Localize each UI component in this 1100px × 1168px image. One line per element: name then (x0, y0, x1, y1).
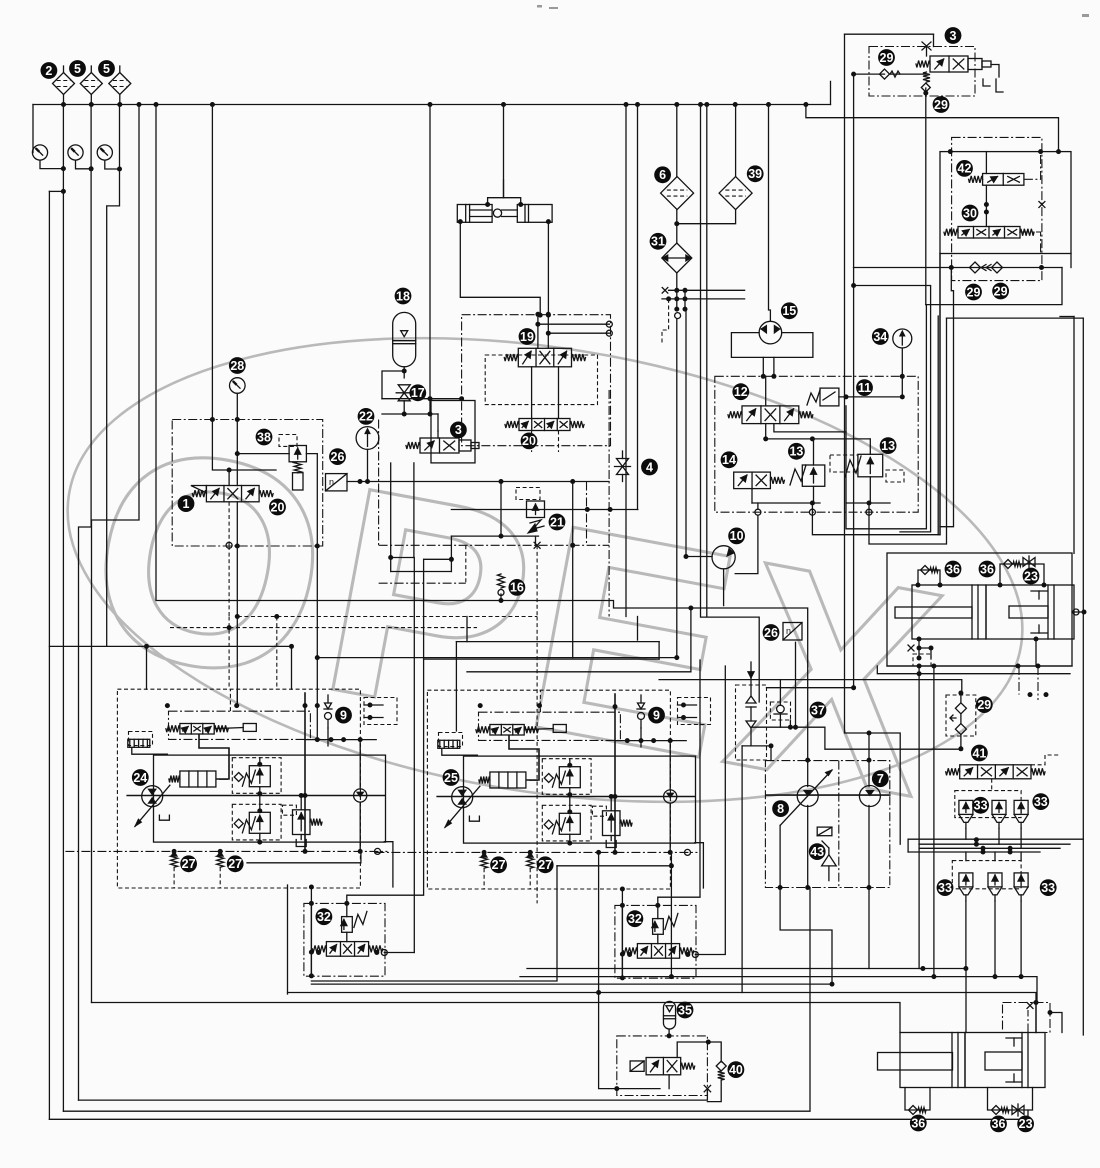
valve 20 lower (505, 419, 584, 431)
wire pump8 vert (807, 806, 809, 888)
unit pilot manifold 24 (305, 739, 376, 741)
wire x668 drop (662, 299, 669, 345)
pilot dashed 13b (886, 470, 904, 482)
accumulator 18 (393, 312, 416, 366)
callout 15 (781, 302, 798, 319)
wire below box (228, 546, 230, 617)
gauge 22 (356, 427, 379, 450)
wire left column C (79, 105, 92, 1101)
svg-text:23: 23 (1024, 569, 1038, 583)
svg-text:29: 29 (967, 285, 981, 299)
callout 6 (654, 166, 671, 183)
svg-text:29: 29 (994, 284, 1008, 298)
symbol 26 shaft (326, 474, 348, 491)
wire x742 drop (741, 746, 743, 993)
callout 20 (521, 433, 538, 450)
pilot dashdot row y545 (379, 544, 609, 546)
cartridge 33 r1b (992, 800, 1006, 814)
valve3 box (431, 401, 475, 463)
callout 27 (537, 856, 554, 873)
cartridge 33 r2a (959, 873, 973, 887)
valvegroup dashdot box (715, 376, 918, 512)
wire bus4 a (908, 838, 1083, 840)
cylinder B2 (965, 1033, 1045, 1088)
wire right col x926 upper (925, 88, 927, 305)
svg-text:13: 13 (789, 445, 803, 459)
callout 19 (519, 328, 536, 345)
pilot dashdot verticals (586, 482, 588, 546)
wire long vertical x212 (211, 105, 213, 420)
wire bottom frame 4 (92, 1003, 901, 1033)
servo 43 (817, 827, 832, 836)
svg-text:26: 26 (764, 626, 778, 640)
svg-text:n: n (329, 477, 334, 487)
wire x676 long drop (676, 319, 678, 658)
pump 8 (780, 770, 832, 825)
unit32 b dashdot box (615, 905, 696, 978)
directional valve 30 (944, 227, 1034, 239)
cyl B pilot box (1003, 1003, 1051, 1033)
filter 39 (719, 177, 752, 210)
wire filter stems (63, 66, 65, 73)
swash valve 24 (180, 771, 216, 787)
unit32 a dashdot box (304, 903, 385, 976)
cartridge 33 r1c (1014, 800, 1028, 814)
wire x765 inner (765, 376, 767, 406)
shutoff valve 4 (615, 459, 631, 475)
filter 31 with bypass (662, 243, 692, 273)
wire mesh y544 (869, 318, 947, 544)
symbol 26b shaft (783, 623, 802, 641)
wire motor drops (762, 357, 764, 376)
aux pump feed 25 (669, 741, 671, 790)
connector row 24 (128, 739, 150, 747)
double check 29 (946, 695, 976, 736)
wire left column D (107, 105, 120, 647)
callout 27 (180, 855, 197, 872)
callout 5 (69, 60, 86, 77)
callout 9 (648, 707, 665, 724)
svg-text:22: 22 (359, 410, 373, 424)
wire hand pump right out (547, 222, 549, 316)
svg-text:27: 27 (228, 857, 242, 871)
callout 29 (992, 283, 1009, 300)
wire 26 to right (347, 481, 609, 483)
wire bus4 c (919, 847, 1060, 849)
wire x572 drop (572, 482, 574, 658)
cartridge row2 box (952, 861, 1021, 889)
callout 14 (721, 451, 738, 468)
callout 31 (650, 233, 667, 250)
wire relief out (306, 454, 317, 740)
wire 35 stem (668, 1029, 670, 1036)
hand pump cylinder assembly (457, 205, 552, 223)
wire 9b stem (640, 728, 642, 747)
wire right h318 (947, 317, 1084, 319)
aux pump feed 24 (359, 740, 361, 789)
wire pump8 drain route (780, 888, 832, 985)
bypass 36b/23 loop (1000, 564, 1044, 585)
wire staircase B (467, 608, 691, 672)
callout 22 (358, 408, 375, 425)
shaft 7-8 (765, 794, 890, 796)
callout 26 (329, 448, 346, 465)
svg-text:32: 32 (317, 910, 331, 924)
svg-text:n: n (786, 626, 791, 636)
wire pump7 vert (868, 733, 870, 787)
svg-text:33: 33 (974, 799, 988, 813)
wire mid v456 (455, 642, 457, 731)
wire pump7 below (868, 888, 870, 969)
wire 40 loop (677, 1042, 708, 1058)
unit bottom dashdot 24 (65, 850, 387, 852)
wire pilot rowB (382, 413, 438, 415)
bottom ports valvegroup (755, 509, 761, 515)
check 37 symbol (746, 696, 756, 728)
svg-text:41: 41 (972, 746, 986, 760)
svg-text:10: 10 (730, 529, 744, 543)
wire h658 left (317, 657, 677, 659)
valve 14 (734, 472, 785, 489)
svg-text:42: 42 (958, 162, 972, 176)
wire relief pilot (237, 453, 289, 455)
svg-text:7: 7 (877, 772, 884, 786)
throttles 27 25 (482, 850, 487, 855)
wire 13 feeds (813, 439, 815, 465)
wire unit32a left (310, 887, 312, 976)
speck top right (1082, 14, 1089, 17)
wire riser x414 (413, 558, 415, 953)
bypass 36a loop (918, 570, 940, 585)
wire Z-links under valve3 (390, 463, 392, 572)
callout 27 (227, 855, 244, 872)
svg-text:36: 36 (992, 1117, 1006, 1131)
pump unit 24 dashed box (117, 689, 360, 888)
cartridge 33 r2c (1014, 873, 1028, 887)
valve3 top X (922, 42, 931, 50)
filter 6 (661, 177, 694, 210)
wire 29 vert (960, 693, 962, 703)
callout 39 (747, 165, 764, 182)
check-relief B 25 (542, 805, 591, 841)
svg-text:29: 29 (977, 698, 991, 712)
wire mid v637 lower (637, 617, 639, 641)
callout 29 (933, 96, 950, 113)
unit3 dashdot box (869, 47, 975, 97)
wire unit32a out (384, 952, 414, 954)
filter F5a (80, 73, 102, 95)
callout 23 (1023, 568, 1040, 585)
unit internals wires 24 (132, 748, 168, 754)
wire 21 riser (500, 482, 502, 537)
wire 37b stems (779, 680, 781, 706)
wire mesh right h305 (926, 268, 1062, 305)
wire left column A (62, 105, 64, 192)
wire 40 down (707, 1080, 721, 1102)
manifold junctions below 31 (674, 288, 679, 293)
wire pump8 diag drop (779, 825, 781, 887)
wire cyl ports (917, 637, 922, 642)
wire small L b (695, 843, 704, 888)
wire y727 link (751, 727, 961, 749)
callout 18 (395, 288, 412, 305)
svg-text:14: 14 (722, 453, 736, 467)
gauge 28 (230, 378, 246, 394)
cartridge row1 box (955, 791, 1021, 818)
callout 42 (956, 160, 973, 177)
svg-text:11: 11 (858, 381, 871, 395)
svg-text:33: 33 (938, 881, 952, 895)
wire bus drop x700 (701, 105, 760, 703)
wire h34 (845, 33, 934, 35)
wire right port (1073, 609, 1079, 615)
callout 9 (335, 707, 352, 724)
callout 10 (728, 528, 745, 545)
wire 14 links (751, 489, 753, 503)
callout 13 (788, 443, 805, 460)
wire valve3 stub (437, 414, 439, 431)
wire bus left end (32, 105, 34, 153)
wire h687 (767, 687, 854, 689)
callout 25 (443, 769, 460, 786)
wire 37 bottom (742, 745, 771, 747)
unit32 b wires (657, 905, 659, 918)
wire unit78 feed left (770, 746, 772, 761)
wire valve3 line (890, 73, 926, 75)
callout 33 (1032, 793, 1049, 810)
solenoid valve 40unit (630, 1058, 695, 1075)
wire small L a (384, 842, 393, 887)
svg-text:30: 30 (963, 206, 977, 220)
svg-text:38: 38 (257, 430, 271, 444)
wire left risers x2 (918, 666, 920, 969)
callout 28 (229, 357, 246, 374)
gauge 34 (893, 329, 912, 348)
wire unit32a top (347, 895, 423, 903)
bypass 36c loop (905, 1088, 930, 1111)
relief C 24 (293, 810, 311, 835)
wire 19 test lines (538, 323, 609, 325)
check valve 9a (325, 713, 332, 720)
valve19 dashed box (485, 355, 597, 405)
cylinder T2 (986, 585, 1074, 639)
svg-text:5: 5 (74, 62, 81, 76)
aux pump 25 (664, 790, 677, 803)
pump 10 (712, 546, 735, 569)
callout 40 (728, 1061, 745, 1078)
callout 12 (732, 383, 749, 400)
pump case drain tank 24 (159, 815, 169, 820)
pump unit 25 dashed box (427, 690, 670, 889)
wire 42 feed (985, 152, 987, 174)
callout 32 (627, 910, 644, 927)
wire unit32b top (658, 660, 700, 905)
wire cyl drops dashdot (1018, 666, 1020, 695)
callout 32 (316, 908, 333, 925)
wire hand pump left out (458, 219, 463, 224)
wire 19-20 links (531, 367, 533, 419)
callout 36 (945, 561, 962, 578)
svg-text:26: 26 (331, 450, 345, 464)
pump unit 25 pilot dashdot (479, 712, 621, 740)
pressure gauge G2 (68, 145, 83, 160)
throttle 16 (498, 574, 505, 588)
svg-text:12: 12 (734, 385, 748, 399)
callout 43 (809, 843, 826, 860)
callout 13 (880, 437, 897, 454)
pressure switch 11 (807, 388, 839, 406)
wire 34 drop (901, 348, 903, 397)
callout 3 (450, 422, 467, 439)
check-relief A 25 (542, 759, 591, 795)
hand pump bracket (488, 198, 521, 205)
svg-text:33: 33 (1034, 795, 1048, 809)
svg-text:21: 21 (550, 515, 564, 529)
svg-text:29: 29 (934, 98, 948, 112)
svg-text:8: 8 (777, 802, 784, 816)
wire bus drop x706 (706, 105, 708, 617)
pilot dashdot y583 (379, 582, 466, 584)
svg-text:34: 34 (873, 330, 887, 344)
solid box 25 (464, 756, 696, 843)
wire 11 out (839, 396, 902, 398)
svg-text:28: 28 (230, 359, 244, 373)
callout 23 (1017, 1116, 1034, 1133)
svg-text:25: 25 (444, 771, 458, 785)
wire 22 stem (367, 449, 369, 481)
shaft line 24 (126, 795, 385, 797)
svg-text:3: 3 (950, 29, 957, 43)
svg-text:35: 35 (678, 1003, 692, 1017)
wire x940 riser (939, 254, 941, 535)
shutoff valve 17 (396, 385, 412, 401)
feedback link 25 (509, 735, 539, 780)
dashed box left of unit24 (129, 732, 153, 746)
wire h673 (877, 666, 1070, 674)
svg-text:1: 1 (183, 497, 190, 511)
relief valve 38 (289, 446, 306, 462)
wire 42 right (1024, 152, 1041, 180)
wire x844 long (845, 34, 901, 844)
valve19 dashdot box (462, 315, 611, 446)
callout 20 (269, 499, 286, 516)
relief b (653, 919, 664, 935)
unit bottom dashdot 25 (375, 851, 697, 853)
wire 37 vert (750, 662, 752, 678)
wire long vertical x430 (429, 105, 431, 399)
solenoid valve 3 (406, 438, 459, 453)
svg-text:37: 37 (811, 703, 825, 717)
wire row y536 (451, 535, 538, 537)
svg-text:15: 15 (782, 304, 796, 318)
wire filter6 stem (676, 105, 678, 177)
wire h646 (49, 645, 291, 647)
wire 9a stem (327, 728, 329, 746)
svg-text:32: 32 (628, 912, 642, 926)
wire x237 into unit24 (236, 689, 238, 705)
callout 29 (965, 284, 982, 301)
dashed drop x537 (536, 545, 538, 616)
filter F5b (109, 73, 131, 95)
pilot box 9a (364, 698, 397, 725)
cartridge 33 r2b (988, 873, 1002, 887)
dashed box left of unit25 (439, 733, 463, 747)
callout 38 (256, 429, 273, 446)
svg-text:39: 39 (748, 167, 762, 181)
svg-text:43: 43 (810, 845, 824, 859)
wire unit32b out (695, 666, 725, 955)
svg-text:19: 19 (520, 330, 534, 344)
pilot dashed 13a (830, 455, 858, 472)
wire filter39 join (735, 105, 737, 177)
dashed riser x229 (228, 617, 230, 690)
pressure gauge G1 (32, 145, 47, 160)
wire unit32b left (621, 889, 623, 978)
svg-text:3: 3 (455, 423, 462, 437)
check valve 37 dashed box (736, 685, 767, 760)
callout 16 (509, 579, 526, 596)
callout 11 (856, 379, 873, 396)
wire right x1074 (1073, 317, 1075, 554)
wire cyl out row (887, 665, 1072, 667)
svg-text:36: 36 (946, 562, 960, 576)
callout 41 (971, 745, 988, 762)
main pump 25 (445, 786, 480, 827)
wire mesh y528 (846, 305, 926, 529)
callout 30 (962, 205, 979, 222)
solenoid valve 42 (969, 174, 1024, 186)
wire x686 long drop (686, 309, 712, 556)
wire y862 link a (247, 851, 361, 862)
wire bottom frame 3 (79, 1089, 708, 1101)
wire mid h641 (466, 617, 468, 642)
callout 35 (677, 1002, 694, 1019)
swash valve 25 (490, 772, 526, 788)
callout 21 (549, 514, 566, 531)
wire valve1 drains (228, 502, 230, 546)
filter F2 (53, 73, 75, 95)
callout 3 (945, 27, 962, 44)
wire 16 lower (500, 594, 502, 601)
unit32 a wires (346, 903, 348, 916)
wire cart stems r2 (965, 852, 967, 861)
callout 1 (178, 495, 195, 512)
svg-text:40: 40 (729, 1063, 743, 1077)
pilot dashed 21 (516, 488, 540, 500)
dashed riser x276 (276, 617, 278, 690)
wire bottom frame 1 (49, 1110, 1028, 1119)
motor bracket (731, 333, 813, 358)
wire bus drop x768 (769, 105, 771, 322)
relief 13a (802, 465, 825, 486)
pilot dashdot left edge (378, 420, 380, 546)
directional valve 1 (192, 486, 273, 502)
wire bus4 d (908, 851, 1040, 853)
wire x938 riser (937, 316, 939, 535)
callout 8 (772, 800, 789, 817)
svg-text:17: 17 (411, 386, 425, 400)
wire filter31 out (676, 273, 678, 290)
tank unit3 (983, 79, 990, 86)
callout 33 (1040, 879, 1057, 896)
callout 26 (763, 624, 780, 641)
callout 37 (810, 702, 827, 719)
bypass 36d/23 loop (988, 1088, 1033, 1111)
callout 17 (409, 384, 426, 401)
pressure gauge G3 (97, 145, 112, 160)
wire cart row2 drains (965, 901, 967, 969)
check line 29x2 (854, 267, 1063, 269)
